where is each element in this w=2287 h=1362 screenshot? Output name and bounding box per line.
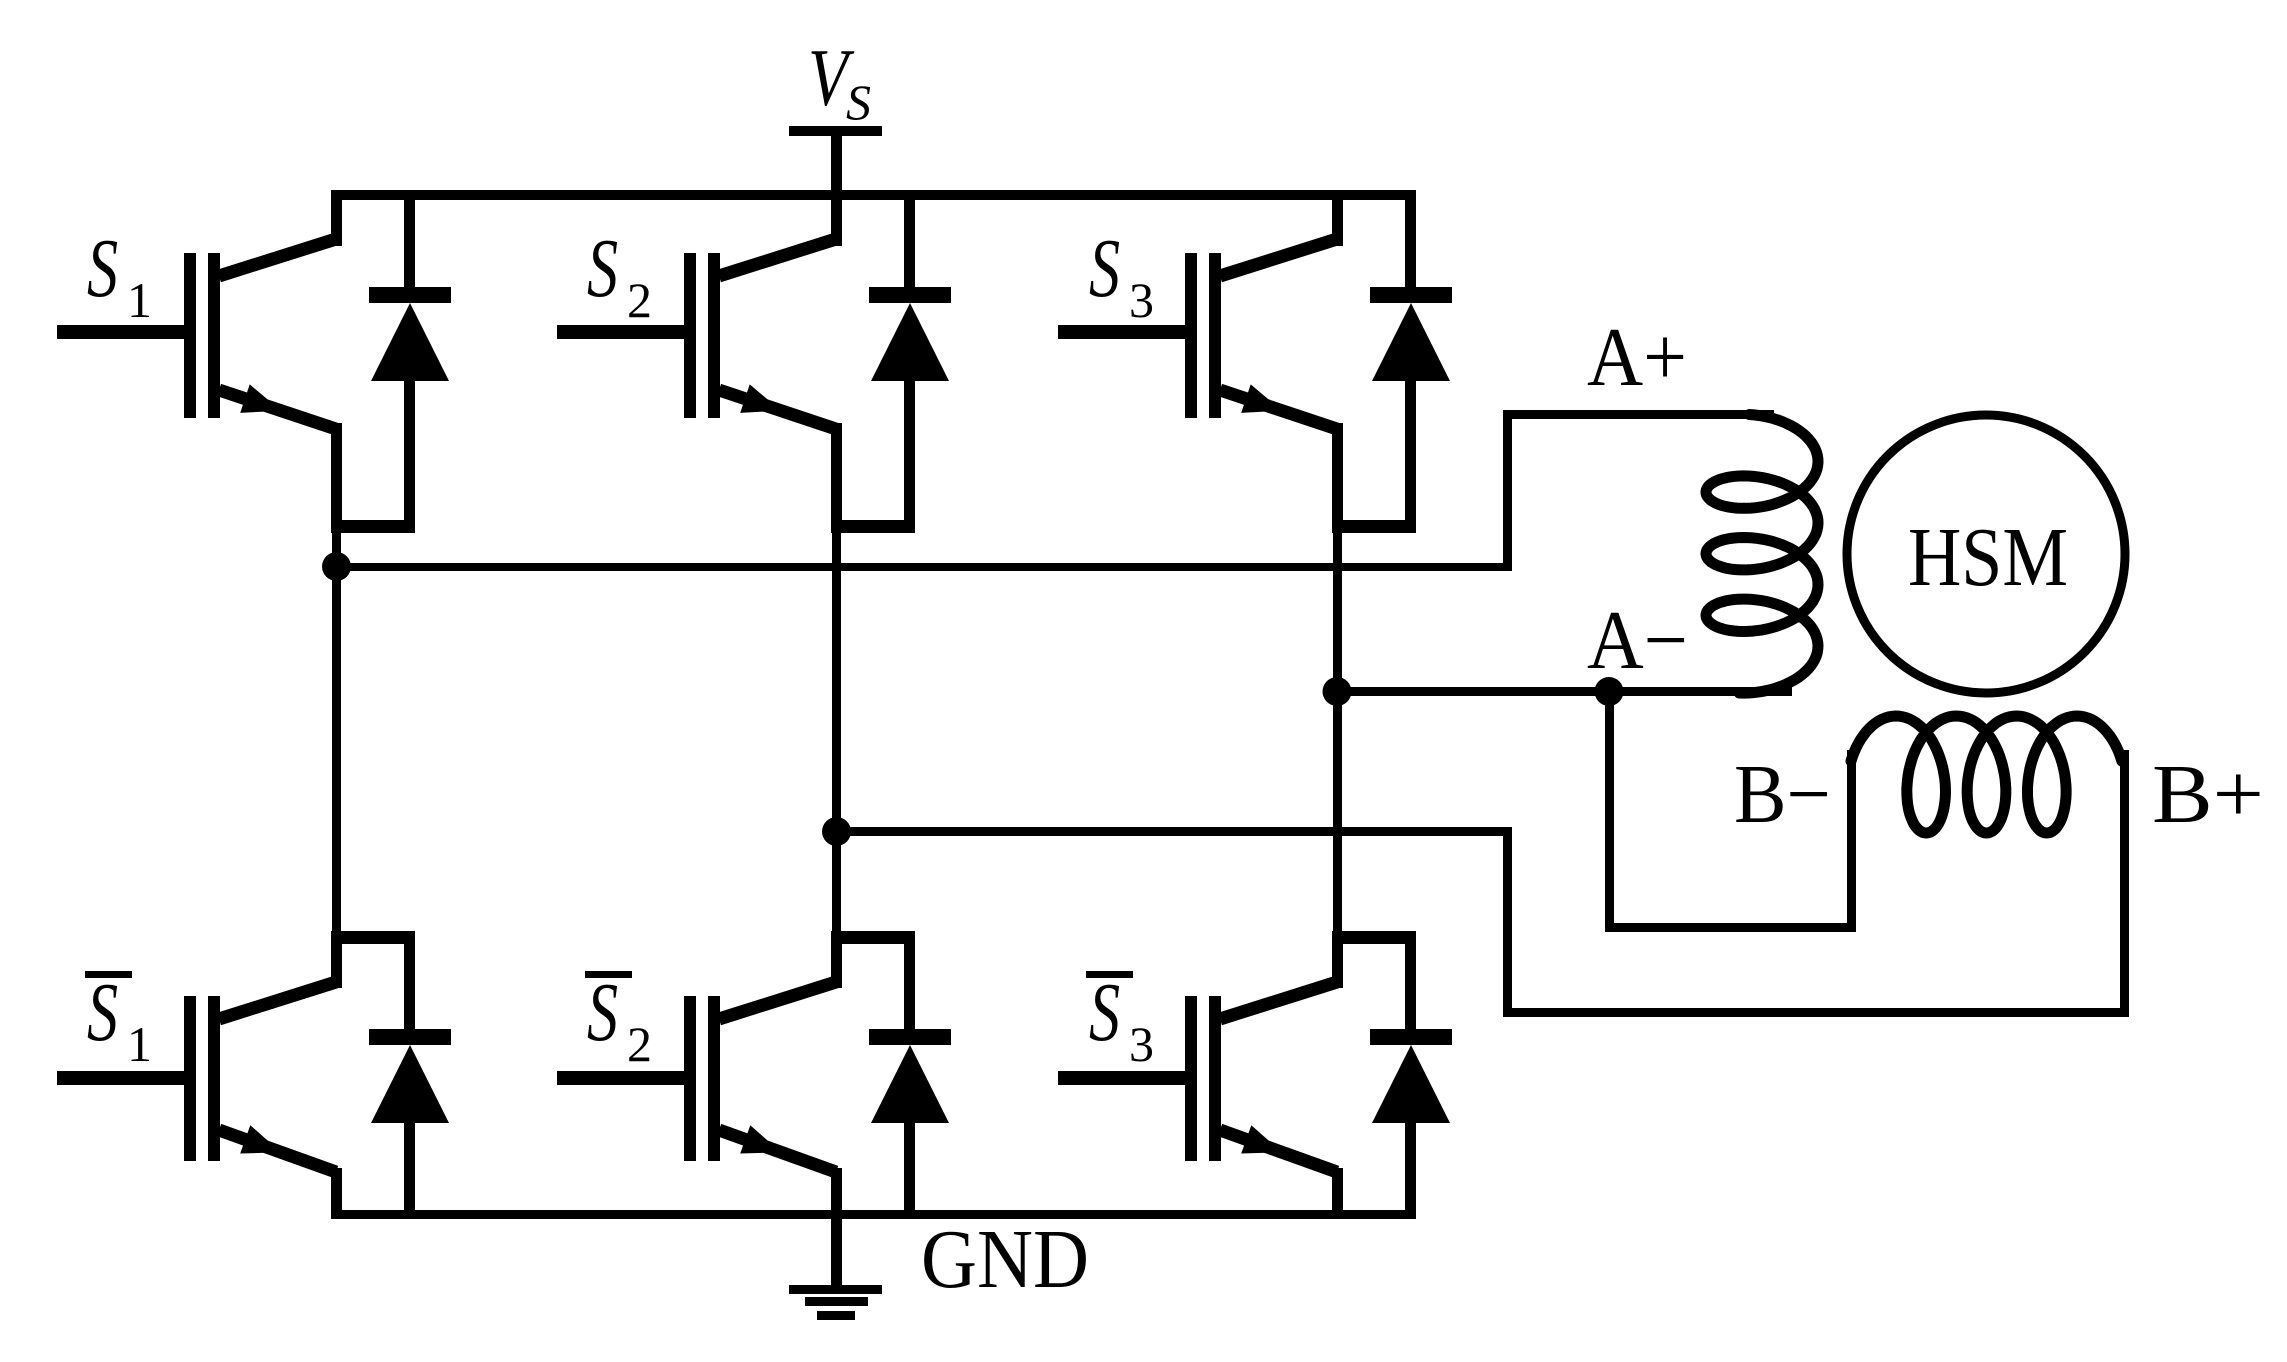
- svg-text:A+: A+: [1587, 311, 1687, 404]
- label S3-bar: [1086, 965, 1154, 1072]
- svg-text:S: S: [587, 965, 618, 1058]
- svg-text:B+: B+: [2152, 748, 2264, 841]
- wire: ground rail: [331, 1210, 1416, 1219]
- svg-text:A−: A−: [1587, 594, 1688, 687]
- motor HSM: [1847, 415, 2125, 693]
- wire: B+ riser: [2120, 750, 2129, 1017]
- inductor: phase A winding: [1706, 415, 1818, 694]
- transistor S1 (IGBT): [57, 190, 415, 533]
- transistor S2-bar (IGBT): [557, 931, 915, 1214]
- svg-text:2: 2: [627, 1016, 652, 1072]
- svg-text:3: 3: [1129, 272, 1154, 328]
- label S2-bar: [585, 965, 652, 1072]
- wire: A+ line: [336, 563, 1512, 571]
- inductor: phase B winding: [1851, 716, 2122, 833]
- wire: phase leg 2: [832, 527, 841, 937]
- diode D2 (antiparallel): [869, 190, 951, 533]
- svg-text:S: S: [1089, 965, 1120, 1058]
- ground symbol: [789, 1214, 882, 1320]
- diode D3 (antiparallel): [1370, 190, 1452, 533]
- transistor S2 (IGBT): [557, 190, 915, 533]
- svg-text:B−: B−: [1734, 748, 1831, 841]
- transistor S1-bar (IGBT): [57, 931, 415, 1214]
- label S2: [587, 221, 652, 328]
- wire: phase leg 1: [332, 527, 341, 937]
- transistor S3-bar (IGBT): [1058, 931, 1416, 1214]
- label VS: [808, 33, 871, 130]
- svg-text:HSM: HSM: [1908, 511, 2068, 604]
- wire: A- drop: [1605, 691, 1614, 931]
- node: leg1 / A+ junction: [322, 552, 351, 581]
- node: leg3 / A- junction: [1323, 677, 1352, 706]
- svg-text:1: 1: [127, 1016, 152, 1072]
- svg-text:S: S: [587, 221, 618, 314]
- svg-text:GND: GND: [921, 1213, 1089, 1306]
- diode D2-bar (antiparallel): [869, 931, 951, 1214]
- wire: B right drop: [1503, 827, 1512, 1017]
- transistor S3 (IGBT): [1058, 190, 1416, 533]
- svg-text:S: S: [87, 965, 118, 1058]
- wire: phase leg 3: [1333, 527, 1342, 937]
- diode D1 (antiparallel): [369, 190, 451, 533]
- wire: A+ top lead: [1503, 410, 1774, 419]
- wire: B- riser: [1847, 750, 1856, 932]
- svg-text:2: 2: [627, 272, 652, 328]
- svg-text:S: S: [87, 221, 118, 314]
- wire: A+ riser: [1503, 410, 1512, 571]
- wire: positive DC rail: [331, 190, 1416, 200]
- diode D3-bar (antiparallel): [1370, 931, 1452, 1214]
- power supply VS terminal: [789, 126, 882, 195]
- svg-text:3: 3: [1129, 1016, 1154, 1072]
- diode D1-bar (antiparallel): [369, 931, 451, 1214]
- label S3: [1089, 221, 1154, 328]
- node: A- / B junction: [1595, 677, 1624, 706]
- wire: A-/B- bottom link: [1605, 923, 1855, 932]
- wire: B+ return: [1503, 1008, 2127, 1017]
- node: leg2 / B junction: [822, 817, 851, 846]
- label S1-bar: [85, 965, 152, 1072]
- label S1: [87, 221, 152, 328]
- svg-text:S: S: [1089, 221, 1120, 314]
- svg-text:1: 1: [127, 272, 152, 328]
- wire: B line: [836, 827, 1512, 836]
- wire: A- line: [1337, 687, 1792, 696]
- svg-text:S: S: [846, 74, 871, 130]
